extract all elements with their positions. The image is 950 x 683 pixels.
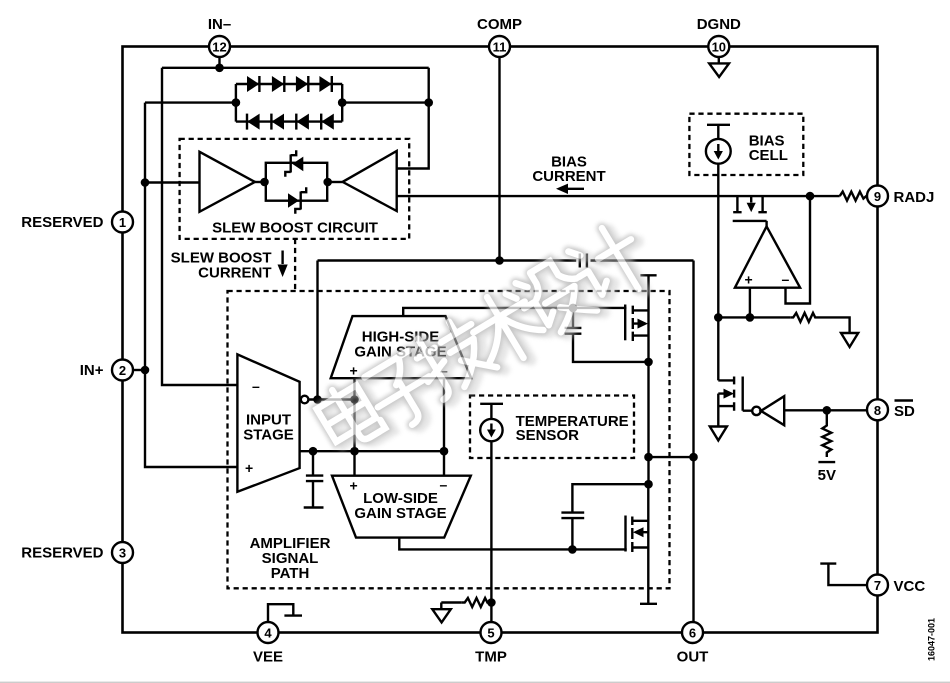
wire pin 11 COMP stem bbox=[498, 57, 500, 261]
current regulator diode top bbox=[285, 150, 303, 177]
svg-text:OUT: OUT bbox=[677, 649, 709, 666]
arrow bias current pointing left bbox=[556, 184, 584, 194]
pin 8 SD bbox=[867, 399, 915, 420]
transistor M1 high-side output NMOS bbox=[625, 275, 648, 362]
svg-text:4: 4 bbox=[264, 626, 272, 641]
wire OUT rail bbox=[692, 261, 694, 623]
pin 4 VEE bbox=[253, 622, 283, 666]
svg-text:+: + bbox=[745, 272, 753, 288]
label AMPLIFIER SIGNAL PATH bbox=[250, 535, 331, 582]
svg-text:–: – bbox=[782, 271, 790, 287]
wire comp line left of cap bbox=[318, 256, 577, 265]
wire pin 2 stem bbox=[133, 369, 145, 371]
diode D6 bbox=[271, 114, 284, 130]
svg-text:5V: 5V bbox=[818, 467, 836, 484]
diode network loop frame bbox=[236, 84, 342, 122]
wire gain stage plus column bbox=[353, 378, 355, 476]
wire op-amp minus feedback to RADJ node bbox=[786, 196, 811, 303]
svg-text:RESERVED: RESERVED bbox=[21, 545, 103, 562]
VEE rail stub at pin 4 bbox=[268, 604, 302, 622]
current source I2 bias cell bbox=[706, 125, 731, 164]
pin 2 IN+ bbox=[80, 360, 133, 381]
svg-text:STAGE: STAGE bbox=[243, 427, 294, 444]
wire output node to OUT rail bbox=[649, 453, 698, 462]
svg-text:12: 12 bbox=[212, 40, 226, 55]
svg-text:–: – bbox=[252, 378, 260, 394]
high-side gain stage bbox=[331, 316, 472, 378]
svg-text:IN+: IN+ bbox=[80, 362, 104, 379]
pin 5 TMP bbox=[475, 622, 507, 666]
pin 12 IN- bbox=[208, 16, 231, 57]
wire bias current line from A2 to RADJ resistor bbox=[397, 192, 840, 201]
svg-text:IN–: IN– bbox=[208, 16, 231, 33]
diode D8 bbox=[321, 114, 334, 130]
diode D5 bbox=[247, 114, 260, 130]
svg-text:RESERVED: RESERVED bbox=[21, 214, 103, 231]
ground at R2 bbox=[841, 333, 858, 347]
wire gain stage minus column bbox=[443, 378, 445, 476]
diode D4 bbox=[319, 76, 331, 92]
capacitor C3 high-side miller bbox=[565, 308, 653, 366]
diode D1 bbox=[247, 76, 259, 92]
diode D3 bbox=[296, 76, 308, 92]
wire comp node riser bbox=[316, 261, 318, 400]
pin 3 RESERVED bbox=[21, 542, 133, 563]
diode D7 bbox=[296, 114, 309, 130]
current source I1 temperature bbox=[480, 404, 503, 442]
bias cell dashed box bbox=[689, 114, 803, 175]
svg-text:7: 7 bbox=[874, 578, 881, 593]
svg-text:SLEW BOOST CIRCUIT: SLEW BOOST CIRCUIT bbox=[212, 220, 378, 237]
capacitor C4 low-side miller bbox=[561, 480, 652, 554]
resistor R2 bias bbox=[790, 313, 849, 333]
pin 1 RESERVED bbox=[21, 212, 133, 233]
buffer amp A1 bbox=[200, 152, 255, 212]
label SLEW BOOST CURRENT bbox=[171, 250, 272, 282]
svg-text:PATH: PATH bbox=[271, 565, 310, 582]
slew boost circuit dashed box bbox=[180, 139, 410, 239]
5V rail stub bbox=[818, 462, 836, 484]
pin 6 OUT bbox=[677, 622, 709, 666]
current regulator diode bottom bbox=[288, 187, 306, 214]
wire bias node rail bbox=[718, 316, 790, 318]
wire M1 source down to output node bbox=[644, 362, 653, 484]
capacitor C1 series comp bbox=[580, 254, 587, 268]
VEE rail stub at M2 source bbox=[640, 603, 657, 605]
svg-text:VCC: VCC bbox=[894, 578, 926, 595]
svg-text:GAIN STAGE: GAIN STAGE bbox=[354, 505, 446, 522]
label SLEW BOOST CIRCUIT bbox=[212, 220, 378, 237]
svg-text:+: + bbox=[245, 460, 253, 476]
resistor R4 at TMP bbox=[441, 598, 490, 609]
low-side gain stage bbox=[332, 476, 471, 538]
pin 7 VCC bbox=[867, 575, 925, 596]
svg-text:+: + bbox=[350, 478, 358, 494]
dashed stem slew boost to amplifier box bbox=[294, 239, 296, 291]
pin 11 COMP bbox=[477, 16, 522, 57]
svg-text:DGND: DGND bbox=[697, 16, 741, 33]
svg-text:5: 5 bbox=[487, 626, 494, 641]
VCC rail stub at pin 7 bbox=[820, 564, 867, 586]
svg-text:11: 11 bbox=[493, 40, 507, 55]
wire op-amp plus input bbox=[746, 288, 755, 322]
wire high-side output to M1 gate bbox=[403, 304, 626, 317]
wire diode network right lead bbox=[338, 98, 429, 107]
svg-text:6: 6 bbox=[689, 626, 696, 641]
wire temp sensor to pin 5 bbox=[487, 441, 496, 622]
wire IN- right branch down to slew buffer A2 input bbox=[397, 68, 433, 169]
svg-text:3: 3 bbox=[119, 546, 126, 561]
svg-text:VEE: VEE bbox=[253, 649, 283, 666]
arrow slew boost current down bbox=[278, 251, 288, 278]
capacitor C2 at input stage output bbox=[304, 451, 324, 507]
ground at DGND bbox=[709, 57, 729, 77]
op-amp U1 input stage bbox=[237, 354, 299, 491]
wire input stage top output bbox=[308, 395, 358, 404]
node output bubble of input stage bbox=[301, 396, 309, 404]
svg-text:CURRENT: CURRENT bbox=[532, 168, 605, 185]
pin 10 DGND bbox=[697, 16, 741, 57]
label TEMPERATURE SENSOR bbox=[516, 413, 629, 444]
resistor R1 to RADJ bbox=[840, 192, 867, 201]
label BIAS CELL bbox=[749, 133, 788, 165]
svg-text:1: 1 bbox=[119, 215, 126, 230]
op-amp A3 bbox=[735, 226, 800, 287]
svg-text:10: 10 bbox=[712, 40, 726, 55]
svg-text:9: 9 bbox=[874, 189, 881, 204]
ground at TMP bbox=[432, 609, 451, 622]
transistor M2 low-side output NMOS bbox=[626, 484, 649, 604]
wire bias cell current rail down bbox=[714, 164, 723, 381]
chip boundary bbox=[123, 47, 878, 633]
svg-text:SENSOR: SENSOR bbox=[516, 427, 580, 444]
wire IN- from pin 12 down to horizontal rail bbox=[162, 57, 429, 72]
label figure number 16047-001 bbox=[927, 618, 937, 661]
transistor M3 bias mirror PMOS bbox=[733, 196, 767, 226]
wire input stage bottom output rail bbox=[300, 447, 449, 456]
svg-text:+: + bbox=[350, 363, 358, 379]
temperature sensor dashed box bbox=[470, 396, 634, 459]
diode D2 bbox=[272, 76, 284, 92]
pin 9 RADJ bbox=[867, 186, 934, 207]
amplifier signal path dashed box bbox=[228, 291, 670, 588]
svg-text:RADJ: RADJ bbox=[894, 189, 935, 206]
svg-text:SD: SD bbox=[894, 403, 915, 420]
svg-text:2: 2 bbox=[119, 363, 126, 378]
wire diode network left lead bbox=[145, 98, 240, 107]
wire A1 output to limiter box bbox=[255, 178, 269, 187]
svg-text:16047-001: 16047-001 bbox=[927, 618, 937, 661]
wire IN- left rail down to input stage minus bbox=[162, 68, 237, 385]
wire comp line right of cap to OUT rail bbox=[591, 259, 694, 261]
transistor M4 shutdown NMOS bbox=[718, 377, 752, 427]
svg-text:–: – bbox=[440, 477, 448, 493]
current limiter loop frame bbox=[266, 163, 327, 201]
buffer amp A2 bbox=[343, 151, 397, 211]
wire inverter input from SD pin bbox=[784, 406, 867, 415]
svg-text:CURRENT: CURRENT bbox=[198, 265, 271, 282]
wire slew boost input from IN+ rail bbox=[145, 181, 200, 183]
svg-text:COMP: COMP bbox=[477, 16, 522, 33]
label BIAS CURRENT bbox=[532, 154, 605, 186]
svg-text:CELL: CELL bbox=[749, 147, 788, 164]
svg-text:TMP: TMP bbox=[475, 649, 507, 666]
inverter U2 bbox=[752, 396, 784, 425]
svg-text:8: 8 bbox=[874, 403, 881, 418]
watermark bbox=[312, 216, 661, 468]
ground at M4 bbox=[710, 427, 727, 441]
resistor R3 pulldown to 5V bbox=[822, 410, 831, 457]
VCC rail stub at M1 drain bbox=[640, 274, 656, 276]
wire low-side output to M2 gate bbox=[399, 538, 626, 550]
wire limiter box to A2 output bbox=[323, 178, 342, 187]
wire IN+ rail down to input stage plus bbox=[141, 103, 238, 467]
